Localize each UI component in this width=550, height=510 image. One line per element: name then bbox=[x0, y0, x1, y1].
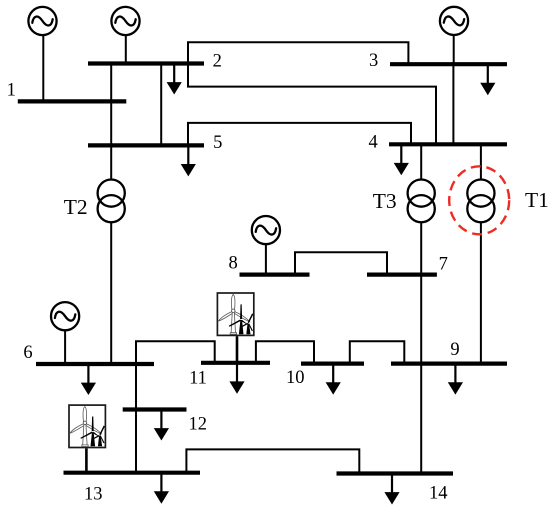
svg-text:13: 13 bbox=[84, 485, 103, 505]
load at bus13 bbox=[154, 473, 169, 504]
generator G2 bbox=[111, 7, 139, 35]
wire bus1-bus2-bus5 vertical bbox=[110, 64, 112, 146]
transformer T3 bbox=[408, 180, 435, 223]
svg-text:T1: T1 bbox=[525, 188, 549, 212]
svg-text:1: 1 bbox=[7, 81, 16, 101]
svg-text:10: 10 bbox=[286, 368, 305, 388]
load at bus14 bbox=[384, 474, 399, 505]
generator G3 stem bbox=[453, 34, 455, 64]
red dashed highlight around T1 bbox=[449, 166, 509, 234]
wind icon stem to bus11 bbox=[236, 336, 239, 363]
svg-text:11: 11 bbox=[189, 369, 207, 389]
wire bus4 to T1 to bus9 bbox=[480, 144, 482, 363]
load at bus11 bbox=[229, 363, 244, 394]
bus 9 bbox=[391, 362, 507, 366]
load at bus4 bbox=[394, 144, 409, 175]
svg-text:2: 2 bbox=[213, 51, 222, 71]
wire bus6 to bus12 to bus13 vertical bbox=[135, 341, 137, 472]
svg-text:3: 3 bbox=[369, 51, 378, 71]
generator G6 bbox=[51, 302, 79, 330]
bus 4 bbox=[389, 142, 507, 146]
generator G8 bbox=[252, 216, 280, 244]
wire bus4 to T3 to bus7 bus9 bus14 bbox=[420, 144, 422, 473]
bus 7 bbox=[367, 273, 437, 277]
svg-text:14: 14 bbox=[429, 484, 448, 504]
bus 13 bbox=[64, 471, 201, 475]
svg-text:9: 9 bbox=[450, 340, 459, 360]
load at bus3 bbox=[480, 64, 495, 95]
wire bus11 to bus10 bbox=[256, 341, 314, 363]
load at bus6 bbox=[81, 364, 96, 395]
wire bus5 to bus4 bbox=[188, 123, 411, 145]
load at bus5 bbox=[181, 145, 196, 176]
wire bus2 to bus3 bbox=[188, 42, 408, 64]
generator G2 stem bbox=[125, 34, 127, 64]
bus 3 bbox=[390, 62, 507, 66]
wire bus3 to bus4 bbox=[452, 64, 454, 144]
load at bus12 bbox=[154, 410, 169, 441]
wire bus13 to bus14 bbox=[186, 449, 359, 473]
svg-text:4: 4 bbox=[368, 132, 377, 152]
load at bus10 bbox=[326, 364, 341, 395]
generator G1 stem bbox=[42, 34, 44, 101]
wire bus2 to bus4 bbox=[188, 64, 436, 145]
load at bus2 bbox=[167, 64, 182, 95]
load at bus9 bbox=[448, 364, 463, 395]
bus 10 bbox=[301, 362, 364, 366]
bus 8 bbox=[240, 273, 310, 277]
wire bus5 to T2 to bus6 bbox=[110, 145, 112, 364]
bus 14 bbox=[337, 471, 454, 475]
svg-text:5: 5 bbox=[213, 133, 222, 153]
bus 2 bbox=[88, 61, 204, 65]
wire bus6 to bus11 bbox=[136, 341, 215, 364]
transformer T1 bbox=[467, 180, 494, 223]
svg-text:7: 7 bbox=[439, 254, 448, 274]
wind turbine icon at bus11 bbox=[217, 293, 253, 335]
bus 6 bbox=[36, 362, 154, 366]
wire bus2 to bus5 bbox=[160, 64, 162, 146]
svg-text:8: 8 bbox=[228, 254, 237, 274]
svg-text:6: 6 bbox=[23, 343, 32, 363]
generator G8 stem bbox=[265, 242, 267, 275]
svg-text:T2: T2 bbox=[64, 195, 88, 219]
wire bus8 to bus7 bbox=[295, 252, 387, 274]
generator G3 bbox=[440, 7, 468, 35]
wind icon stem to bus13 bbox=[85, 448, 88, 472]
svg-text:T3: T3 bbox=[373, 189, 397, 213]
svg-text:12: 12 bbox=[188, 414, 207, 434]
wire bus10 to bus9 bbox=[350, 341, 405, 363]
generator G6 stem bbox=[64, 329, 66, 364]
generator G1 bbox=[28, 7, 56, 35]
bus 12 bbox=[123, 407, 187, 411]
bus 11 bbox=[201, 361, 270, 365]
bus 1 bbox=[18, 99, 127, 103]
bus 5 bbox=[88, 143, 204, 147]
transformer T2 bbox=[98, 180, 125, 223]
wind turbine icon at bus13 bbox=[69, 405, 105, 447]
